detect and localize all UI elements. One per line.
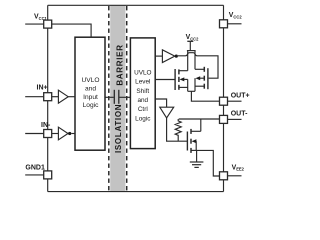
svg-text:BARRIER: BARRIER: [116, 44, 125, 85]
svg-text:Level: Level: [135, 79, 150, 86]
buffer A3 output bubble/junction: [175, 55, 178, 58]
transistor Q1 channel segments: [178, 69, 180, 74]
wire Q2 drain riser: [194, 51, 196, 70]
pin VEE2 square: [220, 172, 228, 180]
wire top rail: [48, 4, 224, 6]
pin IN- square: [44, 130, 52, 138]
transistor Q3 body arrow: [192, 139, 197, 143]
wire: capacitor to right box: [119, 96, 130, 98]
inverter A2 bubble: [68, 132, 71, 135]
svg-text:Shift: Shift: [136, 88, 149, 95]
pin VCC1 square: [44, 20, 52, 28]
transistor Q1 (left P-FET) gate bar: [174, 69, 176, 90]
buffer A4 (low side, pointing down) input: [155, 99, 166, 107]
svg-text:and: and: [85, 85, 96, 92]
isolation barrier gray band: [110, 6, 125, 192]
wire A4 output down: [167, 118, 188, 141]
svg-text:Input: Input: [83, 94, 98, 101]
svg-text:Logic: Logic: [83, 102, 99, 109]
block U2: UVLO Level Shift and Ctrl Logic: [130, 38, 155, 149]
pin OUT+ stub: [228, 100, 242, 102]
block U1: UVLO and Input Logic: [75, 37, 105, 150]
transistor Q3 (N-FET pull down) gate bar: [186, 132, 188, 151]
transistor Q2 (right P-FET) gate bar: [207, 68, 209, 89]
buffer A4 triangle: [160, 107, 174, 118]
wire NMOS drain riser: [200, 119, 202, 131]
pin VCC1 stub: [25, 23, 44, 25]
wire Q2 body-source tie: [194, 78, 196, 91]
transistor Q1 gate lead from U2: [155, 79, 175, 81]
wire totem bottom bar: [188, 90, 195, 92]
svg-text:OUT+: OUT+: [231, 93, 250, 100]
transistor Q1 body arrow: [180, 77, 185, 81]
wire OUT- line: [179, 118, 220, 120]
svg-text:VCC1: VCC1: [34, 14, 48, 21]
pin OUT+ square: [220, 97, 228, 105]
wire VCC1 to block U1: [52, 24, 91, 37]
pin VCC2 stub: [228, 23, 242, 25]
VCC2 supply tap bar: [187, 40, 193, 42]
svg-text:Ctrl: Ctrl: [138, 106, 148, 113]
isolation capacitor C1 plates: [113, 90, 115, 104]
pin VCC2 square: [220, 20, 228, 28]
svg-text:UVLO: UVLO: [82, 77, 100, 84]
transistor Q3 drain stub: [191, 130, 201, 132]
buffer A3 (high side drive): [155, 55, 162, 57]
transistor Q2 drain stub: [195, 68, 204, 70]
ground GND2 symbol: [190, 161, 204, 163]
transistor Q1 source stub: [179, 86, 188, 88]
wire: left box to capacitor: [105, 96, 114, 98]
svg-text:VCC2: VCC2: [186, 34, 200, 41]
pin GND1 stub: [25, 174, 44, 176]
pin GND1 square: [44, 171, 52, 179]
buffer A1 (IN+): [52, 96, 59, 98]
svg-text:Logic: Logic: [135, 115, 151, 122]
wire gate line with hop over supply: [178, 53, 218, 78]
svg-text:VEE2: VEE2: [232, 164, 245, 171]
wire VCC2 tap down: [189, 41, 191, 50]
barrier dashed line left: [108, 6, 110, 192]
transistor Q3 channel segments: [190, 129, 192, 134]
svg-text:IN-: IN-: [41, 122, 51, 129]
transistor Q3 source stub: [191, 149, 197, 151]
transistor Q2 body arrow: [195, 76, 200, 80]
transistor Q1 drain stub: [179, 70, 188, 72]
wire right rail segments: [223, 5, 225, 19]
resistor R1 (clamp): [175, 119, 181, 141]
svg-text:VCC2: VCC2: [229, 12, 243, 19]
wire source to VEE2: [197, 150, 220, 176]
ground GND2 drop: [196, 150, 198, 162]
transistor Q2 source stub: [195, 85, 204, 87]
pin VEE2 stub: [228, 175, 242, 177]
wire totem output to OUT+: [191, 91, 219, 101]
transistor Q3 body-source tie: [195, 141, 197, 150]
wire left rail segments: [47, 5, 49, 20]
wire Q1 drain riser: [187, 51, 189, 71]
transistor Q2 channel segments: [203, 67, 205, 72]
wire bottom rail: [48, 191, 224, 193]
pin IN- stub: [25, 133, 44, 135]
svg-text:ISOLATION: ISOLATION: [114, 104, 123, 153]
wire Q1 body-source tie: [187, 79, 189, 91]
pin OUT- square: [220, 115, 228, 123]
pin IN+ stub: [25, 96, 44, 98]
svg-text:UVLO: UVLO: [134, 69, 151, 76]
barrier dashed line right: [126, 6, 128, 192]
svg-text:IN+: IN+: [37, 84, 48, 91]
pin IN+ square: [44, 93, 52, 101]
wire T-bar over FETs: [187, 50, 196, 52]
inverter A2 (IN-): [52, 133, 59, 135]
pin OUT- stub: [228, 118, 242, 120]
svg-text:and: and: [137, 97, 148, 104]
svg-text:OUT-: OUT-: [231, 111, 248, 118]
svg-text:GND1: GND1: [25, 164, 45, 171]
